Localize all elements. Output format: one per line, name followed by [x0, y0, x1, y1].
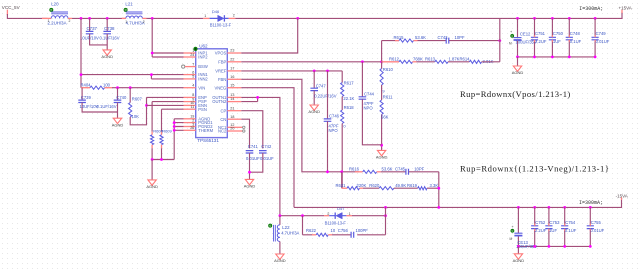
- svg-text:1: 1: [48, 19, 50, 23]
- resistor R607 10K: [129, 88, 131, 103]
- junction FBP node: [380, 60, 383, 63]
- svg-text:53.6K: 53.6K: [382, 166, 393, 171]
- svg-text:B1100-13-F: B1100-13-F: [325, 220, 347, 225]
- pin 8 ENP (left stub): [184, 96, 196, 98]
- svg-text:VPOS: VPOS: [215, 51, 227, 56]
- junction C738 top: [106, 17, 109, 20]
- svg-text:1: 1: [125, 20, 127, 24]
- junction VPOS riser: [296, 17, 299, 20]
- svg-text:2.2UF: 2.2UF: [535, 228, 547, 233]
- svg-text:I=300mA;: I=300mA;: [579, 6, 603, 12]
- wire L20 to L21 (VIN node): [72, 17, 126, 19]
- wire +15VA cap bus: [518, 56, 596, 58]
- pin 16 FBN (right stub): [227, 78, 241, 80]
- wire VNEG to -15VA rail: [241, 88, 621, 208]
- svg-text:R618: R618: [344, 105, 355, 110]
- ground AGND below CE13: [517, 246, 519, 253]
- svg-text:AGND: AGND: [376, 155, 388, 160]
- capacitor C751 2.2UF: [533, 17, 536, 20]
- svg-text:2.2UH/3A: 2.2UH/3A: [48, 21, 67, 26]
- capacitor C750 1UF: [551, 17, 554, 20]
- inductor L21: [124, 8, 127, 11]
- pin 2 PGND1 (left stub): [184, 122, 196, 124]
- capacitor C746 47PF: [327, 71, 329, 119]
- junction C740 tap: [116, 86, 119, 89]
- pin 7 BSW (left stub): [182, 65, 185, 68]
- junction R621 row end: [437, 187, 440, 190]
- svg-text:C743: C743: [438, 35, 449, 40]
- wire R612-R613: [417, 61, 435, 63]
- svg-text:CP: CP: [221, 108, 227, 113]
- svg-text:Rup=Rdownx(Vpos/1.213-1): Rup=Rdownx(Vpos/1.213-1): [460, 89, 571, 99]
- svg-text:0.01UF: 0.01UF: [246, 156, 260, 161]
- svg-text:INN2: INN2: [198, 77, 208, 82]
- junction switch node INP: [151, 17, 154, 20]
- ground AGND left bottom: [148, 180, 156, 185]
- op-amp U62 TPS65131 (IC body): [196, 49, 228, 138]
- svg-text:VREF: VREF: [215, 69, 227, 74]
- ground AGND below C747: [310, 105, 318, 110]
- resistor R619 3.3K: [418, 187, 427, 190]
- svg-text:C751: C751: [535, 31, 546, 36]
- svg-text:R615: R615: [394, 35, 405, 40]
- junction C744 bottom: [380, 144, 383, 147]
- svg-text:R617: R617: [344, 80, 355, 85]
- wire R622 to C756: [332, 234, 351, 236]
- svg-text:1.87K: 1.87K: [449, 56, 460, 61]
- svg-text:1: 1: [349, 212, 351, 216]
- resistor R621 220K: [342, 187, 347, 189]
- junction feedback riser: [437, 206, 440, 209]
- resistor R613 1.87K: [435, 60, 448, 63]
- svg-text:AGND: AGND: [512, 70, 524, 75]
- svg-text:14: 14: [230, 97, 234, 101]
- ground AGND below C740: [113, 118, 121, 123]
- svg-text:AGND: AGND: [308, 109, 320, 114]
- ground AGND below C738: [103, 50, 111, 55]
- pin 22 FBP (right stub): [227, 61, 241, 63]
- junction R622 drop: [301, 214, 304, 217]
- svg-text:49.9K: 49.9K: [395, 183, 406, 188]
- inductor L22: [279, 216, 281, 225]
- junction C747: [313, 70, 316, 73]
- svg-text:11: 11: [190, 105, 194, 109]
- svg-text:C752: C752: [535, 220, 546, 225]
- wire R616 to C745: [381, 171, 406, 173]
- capacitor C740: [117, 88, 119, 100]
- svg-text:D47: D47: [337, 206, 345, 211]
- svg-text:C756: C756: [338, 228, 349, 233]
- junction D47 line end: [384, 214, 387, 217]
- svg-text:C753: C753: [549, 220, 560, 225]
- svg-text:220K: 220K: [357, 183, 367, 188]
- resistor R617 22.1K: [341, 71, 343, 83]
- svg-text:NPO: NPO: [364, 106, 374, 111]
- wire R404 to VIN pin: [112, 87, 184, 89]
- ground AGND below L22: [276, 254, 284, 259]
- wire VREF to R617: [241, 70, 342, 72]
- svg-text:AGND: AGND: [101, 54, 113, 59]
- svg-text:10UF/10V: 10UF/10V: [80, 36, 99, 41]
- svg-text:26: 26: [190, 126, 194, 130]
- svg-text:0.01UF: 0.01UF: [596, 39, 610, 44]
- wire FBN to R616 row: [241, 79, 358, 172]
- svg-text:2: 2: [143, 20, 145, 24]
- wire ENP: [147, 96, 184, 98]
- wire VCC_5V to L20: [7, 14, 47, 18]
- svg-text:AGND: AGND: [274, 258, 286, 263]
- inductor L20: [50, 8, 53, 11]
- wire R618 to R621 row: [341, 172, 343, 188]
- junction INN2 tee: [150, 73, 153, 76]
- diode D46: [203, 17, 209, 19]
- capacitor CE12 100UF/35V: [516, 17, 519, 20]
- svg-text:INP2: INP2: [198, 55, 208, 60]
- svg-text:10PF: 10PF: [414, 166, 424, 171]
- junction R615 row end: [498, 39, 501, 42]
- svg-text:AGND: AGND: [513, 258, 525, 263]
- svg-text:2: 2: [327, 212, 329, 216]
- ground AGND below R611: [377, 150, 385, 155]
- svg-text:I=300mA;: I=300mA;: [579, 200, 603, 206]
- pin 23 VPOS (right stub): [227, 52, 241, 54]
- wire +15VA rail (top): [235, 12, 622, 18]
- svg-text:L22: L22: [282, 225, 290, 230]
- svg-text:C755: C755: [591, 220, 602, 225]
- svg-text:0.01UF: 0.01UF: [260, 156, 274, 161]
- svg-text:M: M: [509, 42, 512, 46]
- junction R618 crossing: [340, 170, 343, 173]
- svg-text:U62: U62: [199, 43, 208, 48]
- svg-text:R607: R607: [132, 96, 143, 101]
- svg-text:BSW: BSW: [198, 64, 208, 69]
- pin 19 AGND (left stub): [184, 118, 196, 120]
- resistor R614 3.01K: [469, 60, 481, 63]
- resistor R615 53.6K: [395, 40, 399, 42]
- svg-text:R616: R616: [349, 166, 360, 171]
- svg-text:AGND: AGND: [146, 184, 158, 189]
- pin 5 INN2 (left stub): [184, 78, 196, 80]
- pin 1 INP1 (left stub): [184, 52, 196, 54]
- svg-text:10: 10: [331, 228, 336, 233]
- svg-text:0.1UF/16V: 0.1UF/16V: [97, 104, 117, 109]
- svg-text:D46: D46: [212, 9, 220, 14]
- svg-text:C750: C750: [553, 31, 564, 36]
- svg-text:C749: C749: [596, 31, 607, 36]
- svg-text:2: 2: [69, 19, 71, 23]
- svg-text:PSN: PSN: [198, 107, 207, 112]
- svg-text:R621: R621: [336, 183, 347, 188]
- capacitor C742 0.01UF: [259, 151, 267, 153]
- junction R607 tap: [129, 86, 132, 89]
- svg-text:R609: R609: [162, 129, 172, 134]
- svg-text:4.7UH/3A: 4.7UH/3A: [281, 231, 299, 236]
- wire OUTN1/OUTN2 to L22 node: [241, 97, 280, 215]
- svg-text:5: 5: [192, 75, 194, 79]
- svg-text:CN: CN: [220, 117, 226, 122]
- svg-text:CE12: CE12: [520, 31, 531, 36]
- svg-text:C742: C742: [261, 144, 272, 149]
- pin 21 CP (right stub): [227, 110, 241, 112]
- svg-text:M: M: [510, 237, 513, 241]
- svg-text:23: 23: [230, 49, 234, 53]
- junction C741/C742 ground: [248, 171, 251, 174]
- capacitor C755 0.01UF: [589, 206, 592, 209]
- svg-text:L21: L21: [125, 1, 133, 6]
- capacitor C749 0.01UF: [594, 17, 597, 20]
- junction OUTN: [256, 96, 259, 99]
- svg-text:10PF: 10PF: [455, 35, 465, 40]
- resistor R611 56K: [381, 85, 383, 100]
- svg-text:C738: C738: [104, 26, 115, 31]
- svg-text:C745: C745: [395, 166, 406, 171]
- svg-text:0.1UF: 0.1UF: [565, 228, 577, 233]
- resistor R622 10: [312, 234, 316, 236]
- svg-text:2: 2: [233, 14, 235, 18]
- wire R621-R620: [363, 187, 379, 189]
- pin 12 NC1 (right stub): [227, 126, 242, 128]
- capacitor C739: [81, 88, 83, 100]
- wire ENN: [147, 104, 184, 106]
- junction R609 bottom: [160, 158, 163, 161]
- svg-text:4: 4: [192, 84, 194, 88]
- svg-text:+15VA: +15VA: [619, 6, 632, 11]
- ground AGND below CE12: [517, 57, 519, 66]
- wire -15VA cap bus: [518, 245, 590, 247]
- svg-text:22.1K: 22.1K: [343, 96, 354, 101]
- svg-text:18: 18: [230, 115, 234, 119]
- resistor R404 100: [81, 87, 90, 89]
- capacitor C744 47PF: [361, 62, 363, 97]
- junction C737 top: [88, 17, 91, 20]
- svg-text:R620: R620: [369, 183, 380, 188]
- resistor R610: [381, 62, 383, 69]
- wire INN1/INN2 to VIN node: [81, 18, 184, 87]
- svg-text:0.01UF: 0.01UF: [591, 228, 605, 233]
- svg-text:1UF: 1UF: [549, 228, 557, 233]
- wire C743 to +15VA riser: [449, 40, 500, 42]
- svg-text:C746: C746: [329, 114, 340, 119]
- svg-text:C754: C754: [565, 220, 576, 225]
- capacitor C737: [89, 18, 91, 31]
- capacitor C745 10PF: [406, 169, 409, 175]
- junction PGND2: [173, 125, 176, 128]
- wire diode D47 line: [280, 215, 386, 217]
- resistor R612 768K: [382, 61, 399, 63]
- svg-text:THERM: THERM: [198, 128, 213, 133]
- junction INP1 tee: [151, 52, 154, 55]
- wire C745 to feedback riser: [409, 172, 439, 208]
- svg-text:OUTN2: OUTN2: [212, 99, 227, 104]
- wire FBP to divider: [241, 61, 381, 63]
- capacitor C748 0.1UF: [568, 17, 571, 20]
- svg-text:R612: R612: [389, 56, 400, 61]
- capacitor C753 1UF: [548, 206, 551, 209]
- svg-text:AGND: AGND: [112, 122, 124, 127]
- capacitor C741 0.01UF: [246, 151, 254, 153]
- svg-text:Rup=Rdownx{(1.213-Vneg)/1.213-: Rup=Rdownx{(1.213-Vneg)/1.213-1}: [460, 164, 610, 174]
- wire R613-R614: [448, 61, 469, 63]
- svg-text:VIN: VIN: [198, 85, 205, 90]
- svg-text:1: 1: [204, 14, 206, 18]
- svg-text:R619: R619: [407, 183, 418, 188]
- wire R615 branch riser: [382, 41, 399, 62]
- svg-text:C747: C747: [316, 83, 327, 88]
- wire INP1/INP2 from switch node: [152, 18, 183, 57]
- svg-text:VNEG: VNEG: [215, 85, 227, 90]
- resistor R620 49.9K: [379, 187, 394, 190]
- svg-text:FBP: FBP: [218, 59, 226, 64]
- junction snubber riser: [384, 206, 387, 209]
- junction VIN node at x81: [80, 17, 83, 20]
- svg-text:B1100-13-F: B1100-13-F: [210, 22, 232, 27]
- junction INN1: [80, 73, 83, 76]
- svg-text:56K: 56K: [381, 114, 389, 119]
- svg-text:0.1UF/16V: 0.1UF/16V: [100, 36, 120, 41]
- svg-text:NC2: NC2: [218, 129, 227, 134]
- svg-text:NPO: NPO: [329, 128, 339, 133]
- pin 24 INP2 (left stub): [184, 56, 196, 58]
- svg-text:TPS65131: TPS65131: [197, 138, 219, 143]
- svg-text:15: 15: [230, 83, 234, 87]
- svg-text:100PF: 100PF: [356, 228, 369, 233]
- svg-text:10K: 10K: [132, 114, 140, 119]
- junction C746: [326, 70, 329, 73]
- capacitor C743 10PF: [446, 38, 449, 44]
- diode D47: [324, 215, 329, 217]
- capacitor C756 100PF: [351, 232, 354, 238]
- svg-text:C739: C739: [81, 95, 92, 100]
- pin 9 PSP (left stub): [184, 101, 196, 103]
- wire R614 to +15VA riser: [482, 18, 500, 61]
- svg-text:C741: C741: [248, 144, 259, 149]
- svg-text:53.6K: 53.6K: [415, 35, 426, 40]
- pin 11 PSN (left stub): [184, 108, 196, 110]
- svg-text:C740: C740: [116, 95, 127, 100]
- ground AGND below C741: [245, 179, 253, 184]
- pin 6 INN1 (left stub): [184, 74, 196, 76]
- pin 18 CN (right stub): [227, 118, 241, 120]
- svg-text:100: 100: [103, 83, 111, 88]
- capacitor CE13 100UF/35V: [517, 206, 520, 209]
- resistor R618: [341, 97, 343, 111]
- pin 3 PGND2 (left stub): [184, 126, 196, 128]
- svg-text:0.1UF: 0.1UF: [570, 39, 582, 44]
- pin 26 THERM (left stub): [184, 129, 196, 131]
- wire AGND/PGND1/PGND2/THERM pins: [174, 119, 183, 131]
- wire PSP to R608: [152, 102, 183, 132]
- svg-text:0.22UF/16V: 0.22UF/16V: [314, 93, 337, 98]
- svg-text:21: 21: [230, 106, 234, 110]
- wire R620-R619: [394, 187, 418, 189]
- resistor R609: [161, 132, 163, 135]
- pin 10 ENN (left stub): [184, 104, 196, 106]
- svg-text:1UF: 1UF: [553, 39, 561, 44]
- svg-text:R610: R610: [383, 67, 394, 72]
- svg-text:R614: R614: [460, 56, 471, 61]
- resistor R608: [151, 132, 153, 135]
- wire AGND bus under R608/R609: [152, 119, 174, 160]
- svg-text:VCC_5V: VCC_5V: [2, 5, 21, 10]
- svg-text:16: 16: [230, 75, 234, 79]
- wire CP to C742: [241, 111, 262, 149]
- svg-text:R404: R404: [81, 83, 92, 88]
- junction ENN tee on R607 riser: [145, 104, 148, 107]
- pin 13 OUTN1 (right stub): [227, 96, 241, 98]
- svg-text:C744: C744: [364, 91, 375, 96]
- capacitor C738: [106, 18, 108, 31]
- capacitor C754 0.1UF: [563, 206, 566, 209]
- svg-text:C737: C737: [87, 26, 98, 31]
- pin 15 VNEG (right stub): [227, 87, 241, 89]
- junction C744 top: [361, 60, 364, 63]
- junction THERM: [173, 129, 176, 132]
- wire to left AGND: [151, 160, 153, 180]
- pin 4 VIN (left stub): [184, 87, 196, 89]
- pin 20 NC2 (right stub): [227, 130, 242, 132]
- wire CN to C741: [241, 119, 249, 148]
- junction PGND1: [173, 121, 176, 124]
- svg-text:R613: R613: [425, 56, 436, 61]
- svg-text:FBN: FBN: [218, 77, 226, 82]
- svg-text:768K: 768K: [413, 56, 423, 61]
- junction C746 bottom: [326, 170, 329, 173]
- svg-text:AGND: AGND: [244, 184, 256, 189]
- svg-text:24: 24: [190, 53, 194, 57]
- svg-text:7: 7: [192, 62, 194, 66]
- junction R608 bottom: [151, 158, 154, 161]
- wire R615 to C743: [418, 40, 447, 42]
- svg-text:22: 22: [230, 57, 234, 61]
- svg-text:2.2UF: 2.2UF: [535, 39, 547, 44]
- wire R622/C756 snubber row: [303, 207, 386, 234]
- svg-text:L20: L20: [51, 1, 59, 6]
- resistor R616 53.6K: [355, 171, 363, 173]
- svg-text:C748: C748: [570, 31, 581, 36]
- capacitor C752 2.2UF: [533, 206, 536, 209]
- svg-text:3.3K: 3.3K: [430, 183, 439, 188]
- svg-text:17: 17: [230, 67, 234, 71]
- svg-text:R611: R611: [383, 94, 393, 99]
- svg-text:20: 20: [230, 127, 234, 131]
- pin 17 VREF (right stub): [227, 70, 241, 72]
- wire L21 to D46 anode: [146, 17, 203, 19]
- capacitor C747 0.22UF: [313, 71, 315, 88]
- wire VPOS to +15VA rail: [241, 18, 297, 53]
- wire R619 to feedback riser: [427, 187, 439, 189]
- pin 14 OUTN2 (right stub): [227, 101, 241, 103]
- wire PSN to R609: [162, 109, 184, 132]
- svg-text:R622: R622: [306, 228, 317, 233]
- junction L22 top: [279, 214, 282, 217]
